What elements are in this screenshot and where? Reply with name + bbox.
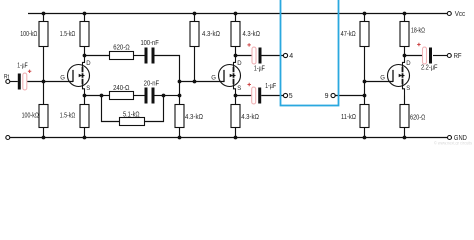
wire R4 bottom stub — [84, 128, 86, 138]
svg-text:1.5-kΩ: 1.5-kΩ — [60, 113, 76, 120]
resistor R8 5.1-kΩ — [120, 118, 145, 126]
wire C5 to pin 5 — [261, 95, 283, 97]
wire Q3 drain stub — [404, 47, 406, 56]
node bottom rail R14 — [403, 136, 407, 140]
svg-text:240-Ω: 240-Ω — [113, 85, 129, 92]
node stage2 bias — [193, 80, 197, 84]
resistor R9 4.3-kΩ stage2 drain — [231, 22, 240, 47]
wire R7 bottom stub — [179, 128, 181, 138]
node Q2 drain — [234, 54, 238, 58]
pin 5 — [283, 93, 287, 97]
resistor R5 620-Ω — [110, 52, 134, 60]
svg-text:4.3-kΩ: 4.3-kΩ — [202, 31, 220, 38]
svg-text:G: G — [60, 76, 65, 82]
resistor R12 11-kΩ — [360, 105, 369, 128]
wire stage3 bias column — [364, 47, 366, 105]
wire Q1 drain to R5 — [85, 55, 110, 57]
resistor R4 1.5-kΩ — [80, 105, 89, 128]
svg-text:RF: RF — [454, 53, 462, 60]
resistor R6 240-Ω — [110, 92, 134, 100]
capacitor C3 20-nF — [145, 88, 155, 104]
resistor R7 4.3-kΩ — [175, 105, 184, 128]
svg-text:1.5-kΩ: 1.5-kΩ — [60, 31, 76, 38]
svg-text:S: S — [237, 86, 241, 92]
wire R13 top stub — [404, 14, 406, 22]
wire Q2 drain stub — [235, 47, 237, 56]
svg-text:G: G — [211, 76, 216, 82]
node stage3 pin9 tap — [363, 94, 367, 98]
wire R3 top stub — [84, 14, 86, 22]
svg-text:620-Ω: 620-Ω — [113, 45, 129, 52]
wire R2 bottom stub — [43, 128, 45, 138]
wire Vcc top rail — [28, 13, 447, 15]
capacitor C6 2.2-µF output — [417, 43, 432, 64]
resistor R14 620-Ω — [400, 105, 409, 128]
svg-text:4.3-kΩ: 4.3-kΩ — [243, 31, 261, 38]
node stage3 gate tap — [363, 80, 367, 84]
transistor Q1 NMOS — [68, 56, 90, 96]
wire input to C1 — [10, 81, 18, 83]
svg-text:5.1-kΩ: 5.1-kΩ — [123, 111, 140, 118]
wire R5 to C2 — [134, 55, 145, 57]
node bottom rail R2 — [42, 136, 46, 140]
node Q3 drain — [403, 54, 407, 58]
node Q1 source — [83, 94, 87, 98]
pin 9 — [331, 93, 335, 97]
wire Q3 source to R14 — [404, 96, 406, 105]
svg-text:Rt: Rt — [4, 75, 9, 81]
svg-text:D: D — [237, 61, 242, 67]
wire Q1 source to network — [85, 95, 102, 97]
capacitor C5 1-µF to pin 5 — [248, 83, 262, 104]
wire Q2 drain to C4 — [236, 55, 253, 57]
node bottom rail R4 — [83, 136, 87, 140]
svg-text:1-µF: 1-µF — [17, 63, 27, 70]
wire Q2 gate row — [180, 81, 225, 83]
svg-text:2.2-µF: 2.2-µF — [421, 65, 438, 72]
svg-text:4: 4 — [289, 53, 293, 60]
node coupling mid — [178, 94, 182, 98]
wire C3 to node — [155, 95, 164, 97]
wire C4 to pin 4 — [262, 55, 284, 57]
terminal Rt input — [6, 80, 10, 84]
resistor R11 47-kΩ — [360, 22, 369, 47]
node top rail R11 — [363, 12, 367, 16]
wire coupling column — [179, 82, 181, 105]
wire Q3 gate — [365, 81, 394, 83]
resistor R13 18-kΩ — [400, 22, 409, 47]
svg-text:11-kΩ: 11-kΩ — [341, 114, 356, 121]
terminal Vcc — [447, 12, 451, 16]
node bottom rail R7 — [178, 136, 182, 140]
wire R14 bottom stub — [404, 128, 406, 138]
terminal bottom-left — [6, 136, 10, 140]
wire Q3 drain to C6 — [405, 55, 423, 57]
node top rail R13 — [403, 12, 407, 16]
wire Q1 drain stub — [84, 47, 86, 56]
node top rail stage2 bias — [193, 12, 197, 16]
resistor R3 1.5-kΩ — [80, 22, 89, 47]
wire R6 to C3 — [134, 95, 145, 97]
svg-text:1-µF: 1-µF — [265, 83, 276, 90]
svg-text:100-nF: 100-nF — [140, 40, 158, 47]
svg-text:Vcc: Vcc — [455, 11, 466, 18]
capacitor C1 1-µF input — [18, 70, 32, 90]
transistor Q3 NMOS — [388, 56, 410, 96]
node Q1 drain — [83, 54, 87, 58]
wire node to R6 — [102, 95, 110, 97]
svg-text:20-nF: 20-nF — [144, 81, 160, 88]
node top rail R3 — [83, 12, 87, 16]
node coupling gate — [178, 80, 182, 84]
wire C6 to RF terminal — [433, 55, 447, 57]
transistor Q2 NMOS — [219, 56, 241, 96]
wire R12 bottom stub — [364, 128, 366, 138]
wire Q1 gate — [44, 81, 74, 83]
wire network left column — [102, 96, 120, 122]
svg-text:100-kΩ: 100-kΩ — [22, 113, 39, 120]
node bottom rail R10 — [234, 136, 238, 140]
node stage1 bias — [42, 80, 46, 84]
resistor R9a 4.3-kΩ stage2 bias — [190, 22, 199, 47]
pin 4 — [283, 53, 287, 57]
node top rail R1 — [42, 12, 46, 16]
wire C1 to bias node — [27, 81, 44, 83]
wire GND bottom rail — [10, 137, 448, 139]
resistor R2 100-kΩ — [39, 105, 48, 128]
wire R9 top stub — [235, 14, 237, 22]
svg-text:© www.next.gr circuits: © www.next.gr circuits — [434, 139, 473, 145]
wire stage2 bias column — [194, 47, 196, 82]
svg-text:18-kΩ: 18-kΩ — [411, 28, 425, 35]
svg-text:9: 9 — [325, 93, 329, 100]
terminal RF output — [447, 54, 451, 58]
wire node to coupling column — [164, 95, 180, 97]
node network right — [162, 94, 166, 98]
capacitor C4 1-µF to pin 4 — [247, 43, 261, 64]
wire R10 bottom stub — [235, 128, 237, 138]
resistor R1 100-kΩ — [39, 22, 48, 47]
svg-text:S: S — [86, 86, 90, 92]
svg-text:G: G — [380, 76, 385, 82]
svg-text:D: D — [86, 61, 91, 67]
svg-text:4.3-kΩ: 4.3-kΩ — [185, 114, 203, 121]
node bottom rail R12 — [363, 136, 367, 140]
wire C2 to coupling corner — [155, 56, 180, 82]
wire R1 top stub — [43, 14, 45, 22]
node Q2 source — [234, 94, 238, 98]
terminal GND — [448, 136, 452, 140]
svg-text:D: D — [406, 61, 411, 67]
svg-text:5: 5 — [289, 93, 293, 100]
wire network right column — [145, 96, 164, 122]
svg-text:620-Ω: 620-Ω — [410, 115, 425, 122]
resistor R10 4.3-kΩ stage2 source — [231, 105, 240, 128]
svg-text:4.3-kΩ: 4.3-kΩ — [241, 114, 259, 121]
wire pin 9 to stage3 bias — [335, 95, 364, 97]
wire stage2 bias top stub — [194, 14, 196, 22]
wire Q2 source to C5 — [236, 95, 252, 97]
wire R11 top stub — [364, 14, 366, 22]
node top rail R9 — [234, 12, 238, 16]
svg-text:S: S — [406, 86, 410, 92]
wire Q2 source to R10 — [235, 96, 237, 105]
capacitor C2 100-nF — [145, 48, 155, 64]
svg-text:47-kΩ: 47-kΩ — [341, 31, 356, 38]
node network left — [100, 94, 104, 98]
svg-text:100-kΩ: 100-kΩ — [20, 31, 37, 38]
svg-text:1-µF: 1-µF — [254, 66, 265, 73]
wire stage1 bias column — [43, 47, 45, 105]
op-amp U1 IC box — [281, 0, 339, 106]
wire Q1 source to R4 — [84, 96, 86, 105]
